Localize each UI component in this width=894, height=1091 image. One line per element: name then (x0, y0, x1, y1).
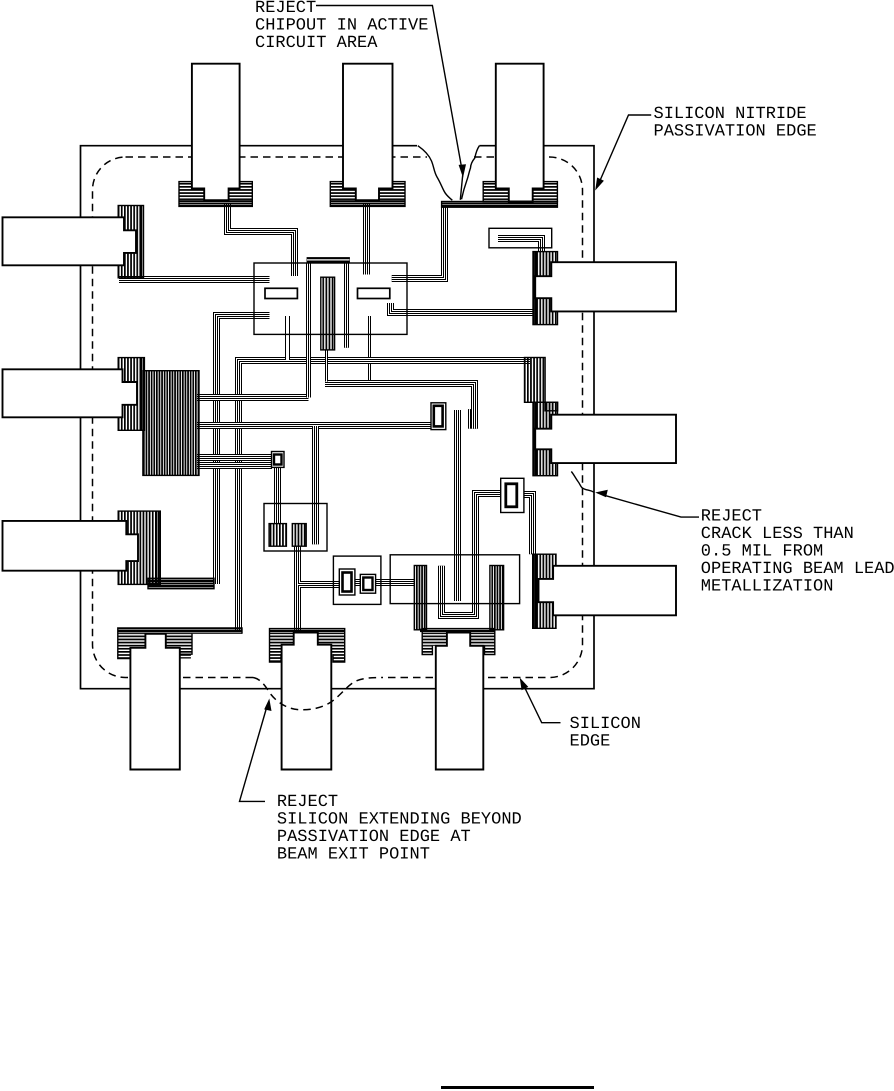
svg-text:PASSIVATION EDGE AT: PASSIVATION EDGE AT (277, 828, 471, 847)
hook cell outline (top right) (489, 228, 552, 248)
footer rule (441, 1086, 594, 1089)
leader: reject chipout (316, 6, 462, 168)
chipout notch left boundary (418, 146, 453, 201)
centre cell outline (254, 263, 407, 334)
bond pad B2 with bar (270, 629, 345, 633)
svg-text:0.5 MIL FROM: 0.5 MIL FROM (701, 543, 823, 562)
via E (white window) (360, 574, 375, 593)
trace from pad T1 into centre cell (228, 204, 295, 276)
trace from pad T2 (367, 204, 370, 381)
beam lead L1 (left) (3, 217, 137, 265)
trace from lower-left cell contact to pad B2 bar and twin-via cell (298, 546, 340, 631)
pad L3 metallization bar (148, 578, 214, 588)
wide trace from large block to centre cell gate bar (197, 263, 347, 398)
lower-left cell contact 1 (269, 524, 286, 547)
thin trace below centre clump (325, 350, 328, 382)
beam lead B1 (bottom) (130, 634, 179, 770)
centre cell resistor slot left (265, 288, 297, 298)
chipout notch right boundary (462, 146, 480, 200)
svg-text:EDGE: EDGE (570, 732, 611, 751)
via B (white window) (272, 452, 285, 468)
beam lead R2 (right) (535, 415, 676, 463)
bond pad T3 (483, 182, 557, 202)
lower-left cell outline (264, 504, 327, 552)
trace from pad T3 bar into centre cell (392, 205, 445, 279)
bond pad B1 with bar (118, 628, 242, 634)
beam lead R3 (right) (539, 566, 677, 616)
U cell tall contact bar left (414, 566, 426, 630)
trace from large block to via A (197, 425, 431, 427)
U cell tall contact bar right (490, 566, 504, 630)
trace from via C down forming U loop (442, 494, 501, 616)
svg-text:SILICON: SILICON (570, 715, 641, 734)
trace from centre cell to capacitor plate with stub (325, 384, 475, 429)
bond pad R2 (533, 402, 558, 475)
leader: reject crack (604, 495, 699, 517)
bond pad T2 (330, 182, 405, 201)
beam lead T3 (top) (496, 64, 544, 202)
svg-text:REJECT: REJECT (277, 793, 338, 812)
svg-text:CRACK LESS THAN: CRACK LESS THAN (701, 525, 854, 544)
twin-via cell connectors (355, 582, 414, 584)
beam lead L3 (left) (3, 521, 139, 571)
pad T3 metallization bar (442, 202, 558, 208)
svg-text:METALLIZATION: METALLIZATION (701, 578, 834, 597)
centre cell clump (321, 277, 335, 350)
crack mark near pad R2 (571, 472, 594, 493)
beam lead T2 (top) (343, 64, 393, 201)
svg-text:SILICON NITRIDE: SILICON NITRIDE (654, 105, 807, 124)
twin-via cell outline (333, 556, 381, 604)
beam lead B3 (bottom) (436, 633, 484, 770)
leader: silicon nitride passivation edge (599, 115, 652, 184)
lower-left cell contact 2 (292, 524, 306, 547)
passivation dashed bulge at beam exit point (253, 678, 383, 710)
thin branch from pad-B1 trace upward (285, 316, 290, 360)
svg-text:CIRCUIT AREA: CIRCUIT AREA (255, 34, 378, 53)
leader: reject silicon extending (240, 706, 268, 802)
bond pad R3 (533, 554, 556, 628)
svg-text:CHIPOUT IN ACTIVE: CHIPOUT IN ACTIVE (255, 16, 428, 35)
passivation dashed edge (rounded rect) (93, 157, 583, 678)
large metallization block (left centre) (143, 371, 199, 476)
via A (white window) (431, 403, 446, 430)
stub trace down into lower-left cell (315, 426, 317, 544)
U cell outline (390, 555, 519, 604)
centre cell resistor slot right (358, 288, 390, 298)
trace pair from large block to via B (197, 457, 272, 459)
bond pad B3 with bar (420, 629, 495, 633)
trace from pad L3 bar up into centre cell (217, 316, 270, 585)
beam lead T1 (top) (192, 64, 240, 201)
leader: silicon edge (523, 685, 560, 723)
trace to pad R1 with stub (391, 303, 534, 313)
bond pad T1 (179, 182, 252, 201)
svg-text:OPERATING BEAM LEAD: OPERATING BEAM LEAD (701, 560, 894, 579)
trace from pad L1 into centre cell (119, 279, 270, 281)
R2 feed step (545, 402, 558, 411)
trace from via B to lower-left cell contact (277, 467, 279, 523)
chipout crack mark in active area (460, 174, 463, 200)
via C (white window) (501, 478, 524, 512)
beam lead B2 (bottom) (282, 633, 332, 770)
hook trace to pad R1 (498, 239, 542, 252)
svg-text:BEAM EXIT POINT: BEAM EXIT POINT (277, 845, 430, 864)
svg-text:SILICON EXTENDING BEYOND: SILICON EXTENDING BEYOND (277, 810, 522, 829)
bond pad L2 (118, 358, 144, 431)
bond pad R1 (533, 252, 558, 325)
pad R2 feed metallization (525, 358, 546, 403)
bond pad L1 (118, 206, 143, 278)
bond pad L3 (118, 511, 160, 584)
trace from via C to pad R3 (524, 495, 533, 555)
centre cell gate bar (307, 257, 350, 263)
trace from pad B1 bar to pad R2 feed (239, 361, 531, 632)
long trace from via A region into U cell (457, 410, 459, 601)
svg-text:REJECT: REJECT (701, 508, 762, 527)
beam lead R1 (right) (535, 262, 676, 311)
svg-text:PASSIVATION EDGE: PASSIVATION EDGE (654, 122, 817, 141)
via D (white window) (339, 569, 355, 595)
svg-text:REJECT: REJECT (255, 0, 316, 18)
silicon die outline (solid edge) (81, 146, 595, 689)
beam lead L2 (left) (3, 369, 138, 417)
